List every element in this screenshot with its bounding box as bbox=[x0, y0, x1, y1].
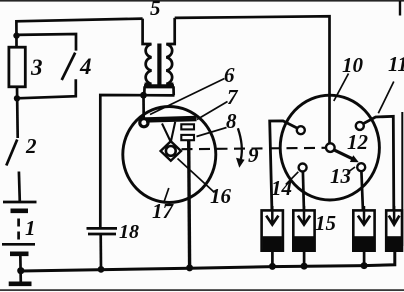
node breaker-bus junction dot bbox=[186, 264, 193, 271]
distributor housing circle bbox=[280, 95, 379, 200]
spark plug 2 bbox=[293, 210, 314, 250]
wire coil node down to pivot bbox=[142, 95, 145, 118]
leader 16 bbox=[178, 159, 215, 193]
spark plug 1 bbox=[262, 210, 283, 250]
node capacitor-bus junction dot bbox=[98, 266, 105, 273]
ignition coil T5 bottom bar bbox=[144, 84, 174, 88]
wire fixed contact to bus bbox=[187, 140, 191, 267]
battery GB1 dashed middle bbox=[17, 219, 20, 241]
svg-text:15: 15 bbox=[315, 211, 336, 235]
breaker lever pivot bbox=[140, 119, 148, 127]
svg-text:7: 7 bbox=[227, 85, 239, 109]
breaker rubbing block lines bbox=[162, 122, 175, 142]
wire coil bottom connectors bbox=[143, 86, 146, 95]
wire coil top right to distributor bbox=[175, 16, 330, 143]
capacitor C18 plate bottom bbox=[88, 233, 116, 236]
switch S4 blade bbox=[62, 53, 75, 80]
ignition coil T5 core bar bbox=[157, 44, 161, 85]
wire coil bottom to capacitor node bbox=[100, 95, 174, 227]
battery GB1 plate long1 bbox=[3, 201, 37, 204]
svg-text:8: 8 bbox=[226, 109, 237, 133]
leader 11 bbox=[378, 82, 394, 114]
leader 7 bbox=[197, 102, 228, 120]
svg-text:14: 14 bbox=[271, 176, 292, 200]
wire switch4 branch top bbox=[17, 34, 77, 51]
top-right tick bbox=[399, 1, 401, 16]
ground bar bbox=[9, 281, 32, 286]
resistor R3 bbox=[9, 47, 25, 87]
bottom border bbox=[0, 289, 404, 291]
wire switch4 branch bottom bbox=[17, 79, 76, 98]
svg-text:4: 4 bbox=[79, 54, 92, 79]
svg-text:11: 11 bbox=[388, 52, 404, 76]
svg-text:9: 9 bbox=[248, 143, 259, 167]
svg-text:2: 2 bbox=[25, 134, 37, 158]
moving contact 7 bbox=[181, 124, 194, 129]
node A junction dot bbox=[13, 32, 19, 38]
ignition coil T5 left winding bbox=[143, 19, 152, 84]
wire ground bus bbox=[21, 250, 395, 271]
battery GB1 plate short1 bbox=[11, 209, 29, 214]
rotor pivot circle bbox=[326, 143, 335, 152]
wire left column bbox=[16, 86, 19, 138]
switch S2 blade bbox=[6, 140, 17, 166]
breaker lever arm 6 bbox=[146, 119, 197, 120]
leader 8 bbox=[197, 128, 227, 137]
cam 16 inner circle bbox=[166, 146, 176, 156]
svg-text:16: 16 bbox=[210, 184, 232, 208]
terminal upper-right 12 bbox=[356, 122, 364, 130]
svg-text:5: 5 bbox=[150, 0, 161, 20]
top border bbox=[0, 0, 404, 2]
rotation arrow 9 bbox=[238, 128, 242, 159]
leader 10 bbox=[334, 74, 349, 102]
cam 16 diamond bbox=[161, 141, 181, 161]
spark plug 4 bbox=[386, 210, 402, 250]
wire capacitor to bus bbox=[99, 235, 102, 270]
wire top-left horizontal bbox=[16, 19, 142, 47]
node coil junction dot bbox=[140, 92, 147, 99]
svg-text:10: 10 bbox=[342, 53, 364, 77]
ignition coil T5 right winding bbox=[166, 18, 174, 84]
svg-text:13: 13 bbox=[330, 164, 351, 188]
capacitor C18 plate top bbox=[87, 227, 118, 230]
rotor arm 13 arrow bbox=[334, 150, 353, 159]
terminal lower-right bbox=[357, 163, 365, 171]
node battery-bus junction dot bbox=[17, 267, 24, 274]
battery GB1 plate short2 bbox=[10, 252, 29, 257]
node B junction dot bbox=[14, 95, 20, 101]
wire terminal LR to plug3 bbox=[361, 171, 363, 209]
terminal lower-left 14 bbox=[299, 164, 307, 172]
svg-text:18: 18 bbox=[119, 221, 139, 243]
svg-text:12: 12 bbox=[347, 130, 369, 154]
wire terminal LL to plug2 bbox=[303, 172, 304, 210]
wire terminal UR to plug4 bbox=[363, 116, 394, 209]
leader 14 bbox=[286, 172, 299, 185]
wire terminal UL to plug1 bbox=[270, 121, 298, 210]
spark plug 3 bbox=[353, 210, 374, 250]
svg-text:1: 1 bbox=[25, 216, 36, 240]
wire to battery bbox=[18, 172, 22, 203]
svg-text:3: 3 bbox=[30, 55, 43, 80]
leader 17 bbox=[164, 188, 169, 203]
leader 13 bbox=[348, 167, 356, 173]
svg-text:17: 17 bbox=[152, 199, 175, 223]
wire battery to bus bbox=[19, 254, 22, 283]
terminal upper-left bbox=[297, 126, 305, 134]
breaker housing circle 17 bbox=[123, 107, 216, 203]
svg-text:6: 6 bbox=[224, 63, 235, 87]
right border segment bbox=[401, 112, 403, 246]
leader 6 bbox=[150, 79, 225, 115]
fixed contact 8 bbox=[181, 135, 194, 140]
battery GB1 plate long2 bbox=[2, 243, 35, 246]
dashed shaft line bbox=[182, 148, 327, 149]
